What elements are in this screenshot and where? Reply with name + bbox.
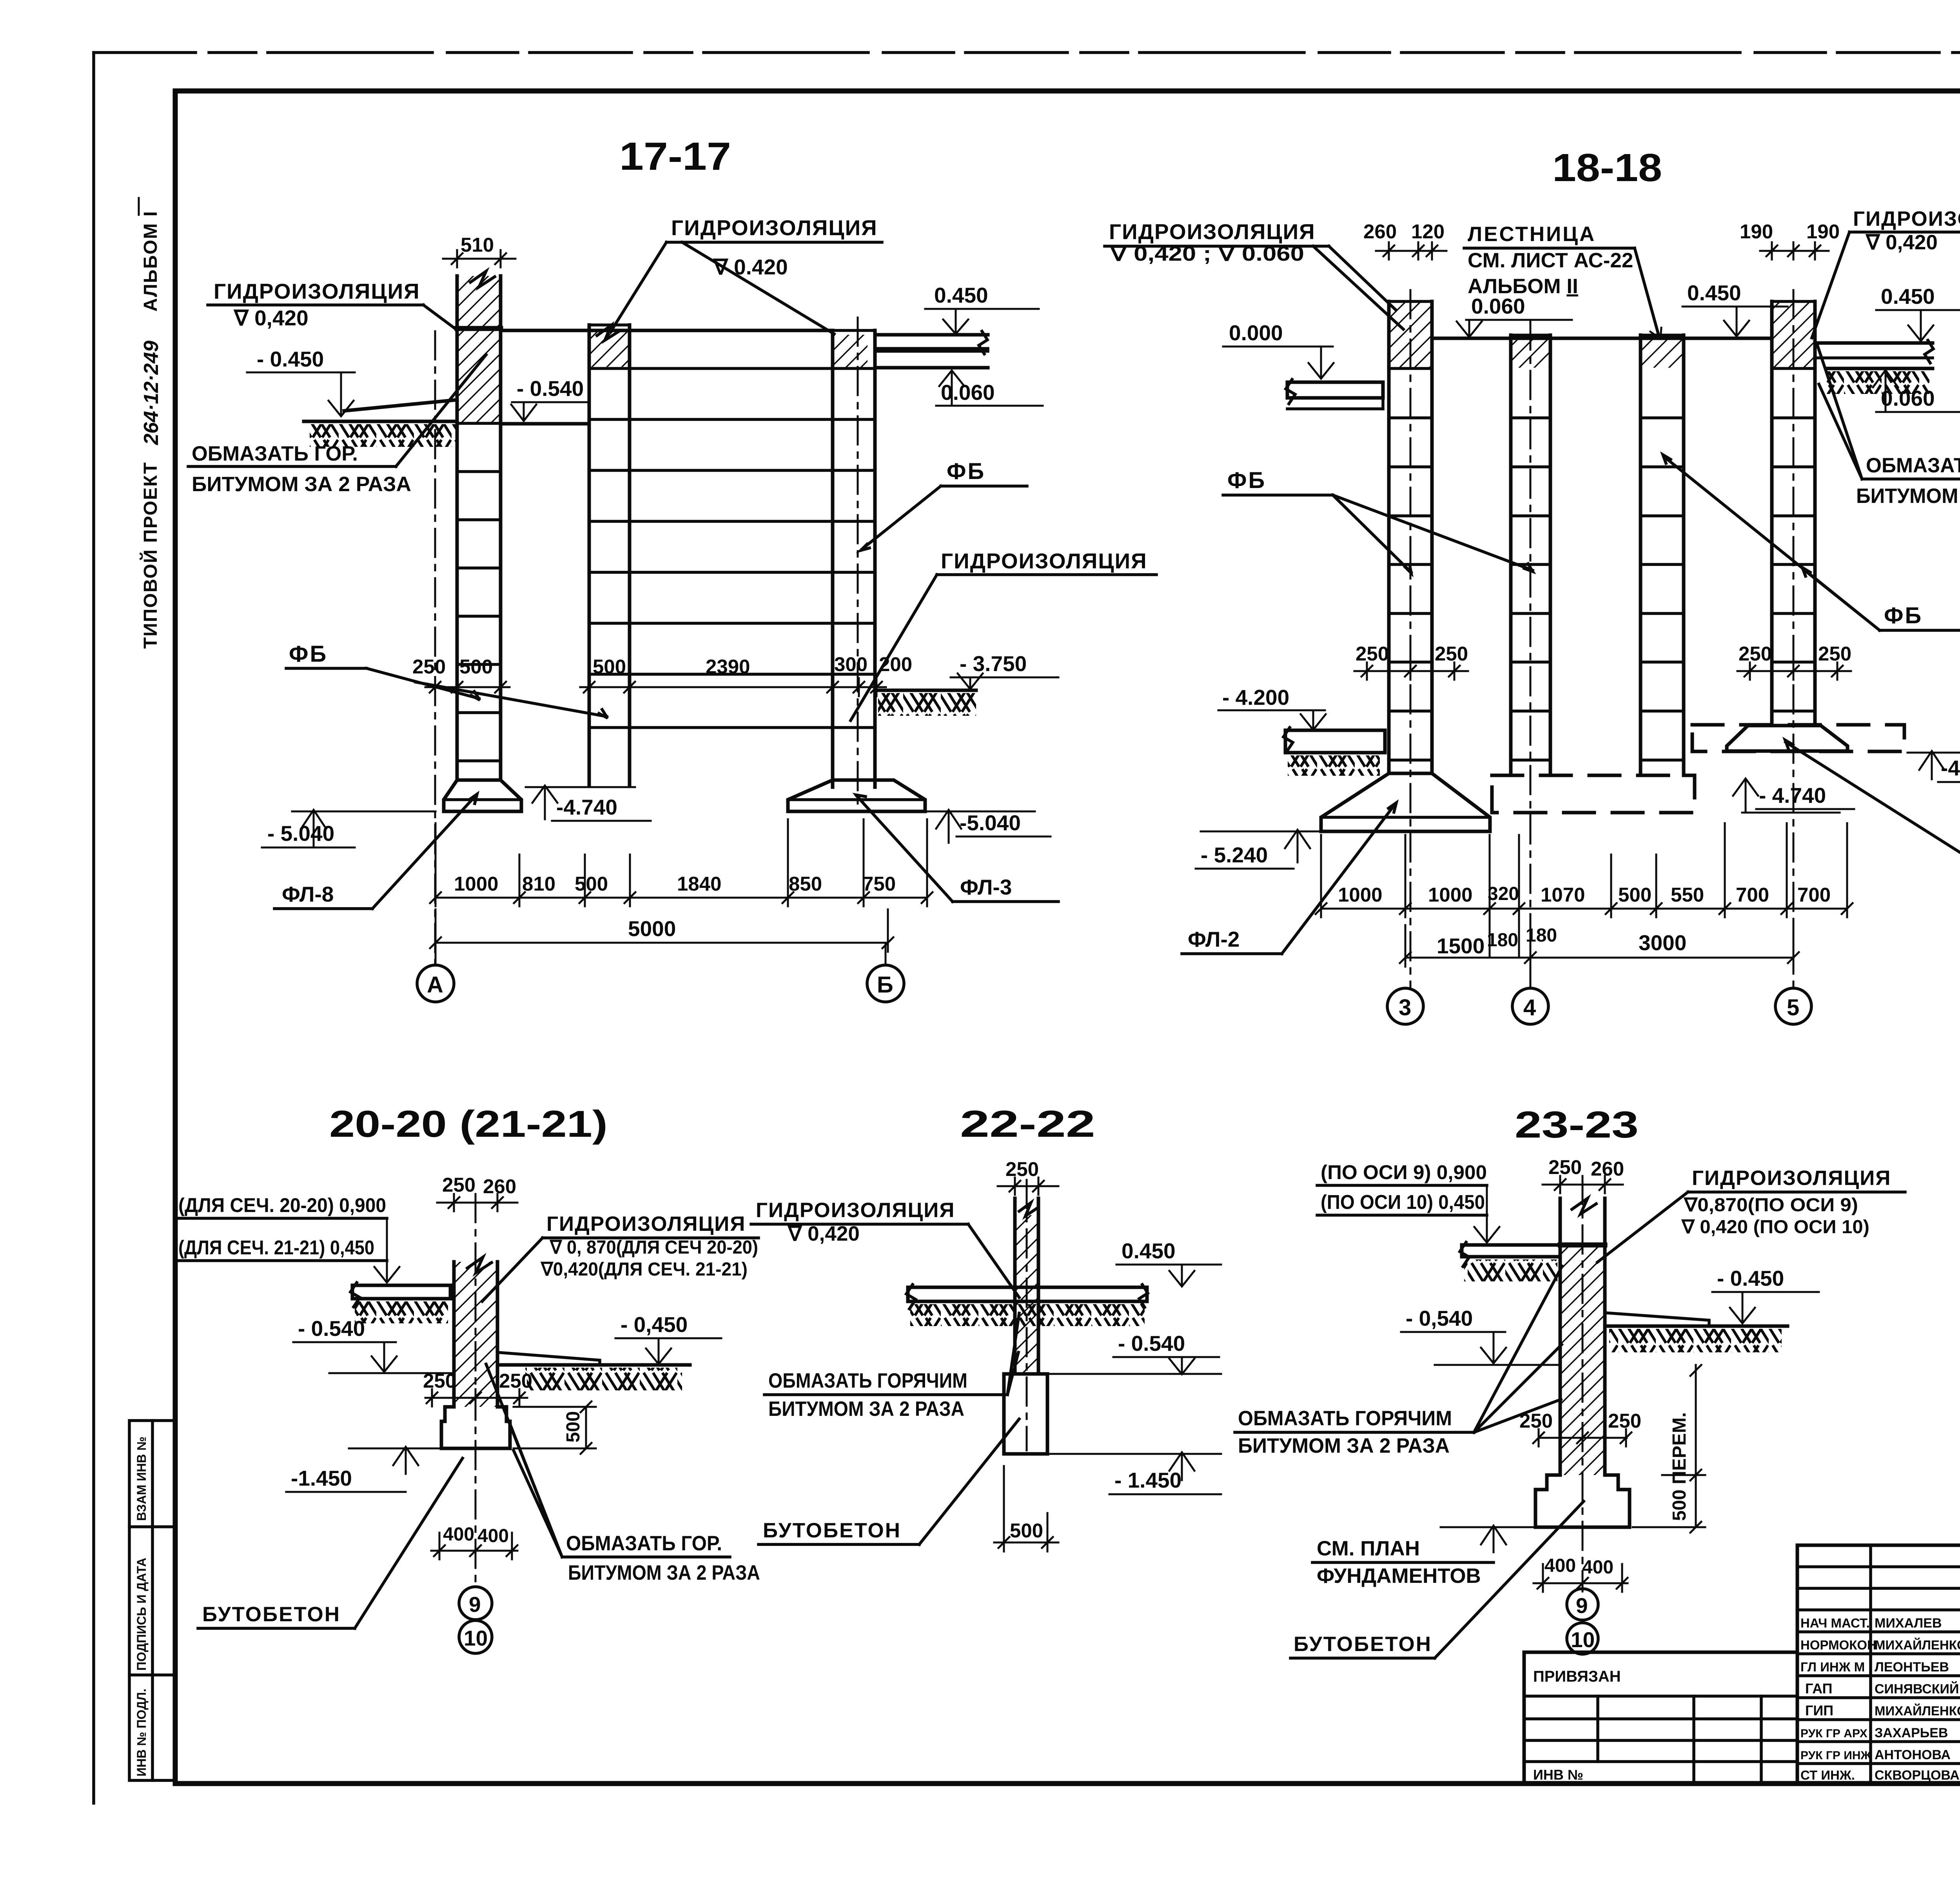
floor line 0.060 xyxy=(1432,337,1772,340)
axis circles 9/10 xyxy=(1567,1589,1598,1654)
svg-text:18-18: 18-18 xyxy=(1552,146,1662,190)
svg-text:250: 250 xyxy=(1005,1158,1039,1180)
level 0.450 xyxy=(1116,1239,1221,1287)
svg-text:ЗАХАРЬЕВ: ЗАХАРЬЕВ xyxy=(1875,1726,1948,1740)
level -5.040 right xyxy=(925,810,1051,843)
smear label xyxy=(486,1364,760,1584)
wall xyxy=(1015,1180,1038,1450)
SECTION 20-20 xyxy=(176,1103,760,1653)
FL-8 label xyxy=(274,794,477,909)
dim 250 top xyxy=(998,1158,1058,1195)
level 0.060 mid xyxy=(1457,294,1572,337)
svg-text:ИНВ №: ИНВ № xyxy=(1533,1767,1583,1783)
svg-text:- 5.240: - 5.240 xyxy=(1201,843,1268,867)
SECTION 22-22 xyxy=(751,1103,1221,1551)
svg-text:ГАП: ГАП xyxy=(1805,1680,1833,1697)
level -0.540 xyxy=(1401,1306,1560,1365)
privyazan stamp table xyxy=(1524,1652,1797,1783)
svg-text:120: 120 xyxy=(1411,220,1445,243)
svg-text:4: 4 xyxy=(1523,995,1536,1020)
level -4.440 xyxy=(1907,751,1960,782)
dim 500 perem xyxy=(1633,1365,1705,1533)
svg-text:ФЛ-2: ФЛ-2 xyxy=(1188,927,1240,951)
svg-text:ГИДРОИЗОЛЯЦИЯ: ГИДРОИЗОЛЯЦИЯ xyxy=(546,1212,746,1236)
svg-text:ФЛ-8: ФЛ-8 xyxy=(282,882,334,906)
floor slab right of axis5 xyxy=(1815,340,1933,394)
svg-text:ОБМАЗАТЬ ГОР.: ОБМАЗАТЬ ГОР. xyxy=(566,1532,722,1555)
dim 250/250 axis3 xyxy=(1354,642,1468,680)
svg-text:250: 250 xyxy=(1818,642,1851,665)
column axis 5 xyxy=(1772,290,1815,988)
svg-text:(ПО ОСИ 9) 0,900: (ПО ОСИ 9) 0,900 xyxy=(1321,1161,1487,1183)
svg-text:БУТОБЕТОН: БУТОБЕТОН xyxy=(202,1603,341,1626)
svg-text:-4 440: -4 440 xyxy=(1941,756,1960,780)
svg-text:ЛЕСТНИЦА: ЛЕСТНИЦА xyxy=(1468,223,1596,246)
bottom dimension row 2 xyxy=(1400,925,1799,967)
SECTION 23-23 xyxy=(1235,1104,1905,1658)
level 0.450 top right xyxy=(925,283,1039,334)
svg-text:ИНВ № ПОДЛ.: ИНВ № ПОДЛ. xyxy=(134,1689,149,1776)
dashed footing FL-5 xyxy=(1692,725,1904,751)
svg-text:ГИП: ГИП xyxy=(1805,1702,1833,1718)
column axis 4 xyxy=(1511,321,1550,988)
axis circle B xyxy=(867,943,904,1002)
svg-text:БУТОБЕТОН: БУТОБЕТОН xyxy=(763,1519,901,1542)
wall column on axis A xyxy=(457,271,501,780)
axis circle 3 xyxy=(1387,988,1423,1024)
svg-text:2390: 2390 xyxy=(706,655,750,678)
axis circle A xyxy=(417,952,454,1002)
svg-text:ФУНДАМЕНТОВ: ФУНДАМЕНТОВ xyxy=(1317,1564,1481,1588)
svg-text:9: 9 xyxy=(469,1592,481,1617)
svg-text:-1.450: -1.450 xyxy=(291,1466,352,1490)
bottom dimension row 1 xyxy=(1316,823,1853,956)
svg-text:- 3.750: - 3.750 xyxy=(960,651,1027,676)
small rows table xyxy=(1797,1565,1960,1568)
svg-text:ОБМАЗАТЬ ГОР.: ОБМАЗАТЬ ГОР. xyxy=(1866,454,1960,477)
svg-text:250: 250 xyxy=(1435,642,1468,665)
svg-text:БИТУМОМ ЗА 2 РАЗА: БИТУМОМ ЗА 2 РАЗА xyxy=(192,473,411,496)
level 0.060 right xyxy=(936,370,1043,406)
hydro label xyxy=(1597,1167,1905,1262)
axis circle 4 xyxy=(1512,988,1548,1024)
svg-text:Б: Б xyxy=(877,972,893,998)
svg-text:9: 9 xyxy=(1576,1593,1588,1618)
level labels for 20-20/21-21 xyxy=(176,1194,399,1283)
block course lines left column xyxy=(457,423,501,761)
svg-text:250: 250 xyxy=(499,1370,532,1392)
smear label xyxy=(1235,1266,1562,1457)
grid course lines xyxy=(589,368,875,728)
svg-text:СТ ИНЖ.: СТ ИНЖ. xyxy=(1800,1768,1855,1782)
svg-text:320: 320 xyxy=(1488,884,1519,904)
svg-text:1000: 1000 xyxy=(454,873,498,895)
axis A dash-dot line xyxy=(434,331,436,965)
left margin stamp boxes xyxy=(129,1421,175,1780)
svg-text:810: 810 xyxy=(522,873,555,895)
svg-text:АНТОНОВА: АНТОНОВА xyxy=(1875,1747,1951,1762)
svg-text:180: 180 xyxy=(1487,930,1518,951)
level -0.540 xyxy=(1038,1331,1221,1374)
hydro label top center xyxy=(611,216,882,334)
svg-text:ГИДРОИЗОЛЯЦИЯ: ГИДРОИЗОЛЯЦИЯ xyxy=(1692,1167,1891,1190)
floor slab top right xyxy=(875,331,988,368)
FB label left xyxy=(286,641,608,718)
hydro label xyxy=(482,1212,759,1301)
hydro label top left of 18-18 xyxy=(1105,220,1403,329)
footing xyxy=(1535,1475,1630,1527)
svg-text:ТИПОВОЙ ПРОЕКТ: ТИПОВОЙ ПРОЕКТ xyxy=(140,462,161,649)
svg-text:БИТУМОМ ЗА 2 РАЗА: БИТУМОМ ЗА 2 РАЗА xyxy=(568,1561,760,1584)
svg-text:МИХАЙЛЕНКО: МИХАЙЛЕНКО xyxy=(1875,1637,1960,1652)
svg-text:∇0,870(ПО ОСИ 9): ∇0,870(ПО ОСИ 9) xyxy=(1683,1195,1858,1216)
SECTION 17-17 xyxy=(188,134,1156,1002)
dim 250/250 axis5 xyxy=(1737,642,1851,680)
dim 510 over wall xyxy=(443,234,515,267)
svg-text:0.060: 0.060 xyxy=(1471,294,1525,318)
svg-text:(ПО ОСИ 10) 0,450: (ПО ОСИ 10) 0,450 xyxy=(1321,1191,1485,1213)
level 0.000 xyxy=(1223,321,1334,379)
svg-text:∇ 0,420 ; ∇ 0.060: ∇ 0,420 ; ∇ 0.060 xyxy=(1109,242,1304,265)
svg-text:(ДЛЯ СЕЧ. 21-21) 0,450: (ДЛЯ СЕЧ. 21-21) 0,450 xyxy=(178,1236,374,1259)
svg-text:ФЛ-3: ФЛ-3 xyxy=(960,875,1012,899)
level -0.540 xyxy=(293,1316,454,1373)
axis circles 9/10 xyxy=(459,1587,492,1653)
dim 260/120 xyxy=(1363,220,1446,259)
svg-text:700: 700 xyxy=(1736,884,1769,906)
level 0.450 right xyxy=(1876,284,1960,341)
column between 4 and 5 xyxy=(1641,335,1684,775)
butobeton label xyxy=(198,1458,463,1628)
level -4.740 middle xyxy=(526,786,651,821)
svg-text:МИХАЛЕВ: МИХАЛЕВ xyxy=(1875,1616,1942,1631)
svg-text:500: 500 xyxy=(1618,884,1651,906)
svg-text:17-17: 17-17 xyxy=(619,134,731,178)
FB label left xyxy=(1223,468,1533,573)
svg-text:250: 250 xyxy=(423,1370,456,1392)
svg-text:3: 3 xyxy=(1399,995,1411,1020)
level -0.540 mid xyxy=(511,376,588,421)
svg-text:- 0,540: - 0,540 xyxy=(1406,1306,1473,1330)
dim 250/260 top xyxy=(437,1174,517,1211)
smear label right xyxy=(1817,345,1960,508)
svg-text:0.060: 0.060 xyxy=(941,380,995,405)
svg-text:0.450: 0.450 xyxy=(1687,281,1741,305)
svg-text:-5.040: -5.040 xyxy=(960,811,1021,835)
svg-text:ФБ: ФБ xyxy=(947,459,985,484)
FL-2 label xyxy=(1182,803,1396,954)
hydro level line over grid xyxy=(501,329,833,332)
svg-text:250: 250 xyxy=(1356,642,1389,665)
svg-text:∇ 0,420: ∇ 0,420 xyxy=(1865,231,1938,254)
svg-text:- 0.540: - 0.540 xyxy=(517,376,584,401)
svg-text:500: 500 xyxy=(593,655,626,678)
footing FL-8 xyxy=(444,780,521,811)
floor slab left low xyxy=(1283,728,1385,776)
svg-text:- 0.450: - 0.450 xyxy=(1717,1266,1784,1290)
axis circle 5 xyxy=(1775,988,1811,1024)
FL-5 label xyxy=(1785,740,1960,871)
svg-text:400: 400 xyxy=(1582,1557,1613,1578)
level bottom see plan xyxy=(1312,1526,1535,1588)
svg-text:∇ 0,420: ∇ 0,420 xyxy=(787,1222,860,1245)
svg-text:ГИДРОИЗОЛЯЦИЯ: ГИДРОИЗОЛЯЦИЯ xyxy=(1109,220,1316,244)
stairs note xyxy=(1464,223,1661,339)
wall column xyxy=(454,1194,497,1584)
svg-text:- 0.540: - 0.540 xyxy=(1118,1331,1185,1355)
svg-text:ГИДРОИЗОЛЯЦИЯ: ГИДРОИЗОЛЯЦИЯ xyxy=(214,279,420,303)
svg-text:- 0.450: - 0.450 xyxy=(257,347,324,371)
svg-text:250: 250 xyxy=(1739,642,1772,665)
svg-text:МИХАЙЛЕНКО: МИХАЙЛЕНКО xyxy=(1875,1703,1960,1718)
svg-text:ГИДРОИЗОЛЯЦИЯ: ГИДРОИЗОЛЯЦИЯ xyxy=(1853,207,1960,230)
svg-text:23-23: 23-23 xyxy=(1515,1104,1639,1146)
svg-text:0.000: 0.000 xyxy=(1229,321,1283,345)
svg-text:СМ. ПЛАН: СМ. ПЛАН xyxy=(1317,1537,1420,1560)
svg-text:- 4.200: - 4.200 xyxy=(1222,685,1289,709)
svg-text:-4.740: -4.740 xyxy=(556,795,617,819)
level 0.060 right xyxy=(1873,370,1960,412)
floor slab left xyxy=(1460,1242,1560,1281)
level -5.240 xyxy=(1196,830,1319,869)
svg-text:260: 260 xyxy=(1591,1158,1624,1180)
FL-3 label xyxy=(856,795,1058,902)
svg-text:22-22: 22-22 xyxy=(960,1103,1095,1145)
svg-text:ПОДПИСЬ И ДАТА: ПОДПИСЬ И ДАТА xyxy=(134,1558,149,1671)
svg-text:ФБ: ФБ xyxy=(1884,603,1923,628)
svg-text:5000: 5000 xyxy=(628,916,676,941)
vertical project text xyxy=(139,198,163,649)
ground ledge right of grid xyxy=(875,690,976,716)
hydro label right xyxy=(851,549,1156,720)
svg-text:ГИДРОИЗОЛЯЦИЯ: ГИДРОИЗОЛЯЦИЯ xyxy=(941,549,1147,573)
svg-text:- 1.450: - 1.450 xyxy=(1114,1468,1181,1492)
level -0.450 xyxy=(1712,1266,1819,1323)
svg-text:1500: 1500 xyxy=(1437,934,1485,958)
floor slab left xyxy=(1286,379,1383,409)
FB label right xyxy=(861,459,1027,550)
svg-text:500: 500 xyxy=(575,873,608,895)
level -1.450 xyxy=(1047,1452,1221,1494)
svg-text:5: 5 xyxy=(1787,995,1799,1020)
svg-text:ПРИВЯЗАН: ПРИВЯЗАН xyxy=(1533,1668,1621,1685)
notes xyxy=(1960,1095,1960,1275)
hydro label xyxy=(751,1199,1019,1297)
level -4.740 right xyxy=(1733,778,1854,813)
svg-text:10: 10 xyxy=(464,1626,488,1650)
middle basement wall grid left column xyxy=(589,325,630,786)
SECTION 18-18 xyxy=(1105,146,1960,1024)
dim 250/260 top xyxy=(1543,1156,1624,1193)
svg-text:500: 500 xyxy=(563,1411,584,1443)
svg-text:500 ПЕРЕМ.: 500 ПЕРЕМ. xyxy=(1669,1412,1690,1521)
svg-text:300: 300 xyxy=(834,653,867,675)
svg-text:1000: 1000 xyxy=(1428,884,1472,906)
svg-text:510: 510 xyxy=(461,234,494,256)
svg-text:СИНЯВСКИЙ: СИНЯВСКИЙ xyxy=(1875,1681,1959,1697)
svg-text:ОБМАЗАТЬ ГОРЯЧИМ: ОБМАЗАТЬ ГОРЯЧИМ xyxy=(768,1369,967,1392)
svg-text:550: 550 xyxy=(1671,884,1704,906)
svg-text:260: 260 xyxy=(483,1175,516,1198)
svg-text:- 4.740: - 4.740 xyxy=(1759,783,1826,807)
ground right xyxy=(497,1352,690,1390)
level -4.200 xyxy=(1218,685,1326,730)
svg-text:РУК ГР ИНЖ: РУК ГР ИНЖ xyxy=(1800,1749,1872,1762)
svg-text:1070: 1070 xyxy=(1541,884,1585,906)
svg-text:ФБ: ФБ xyxy=(1227,468,1266,493)
svg-text:- 0.540: - 0.540 xyxy=(298,1316,365,1341)
level -3.750 right xyxy=(0,0,0,0)
svg-text:0.060: 0.060 xyxy=(1881,386,1935,410)
footing block xyxy=(1004,1374,1047,1454)
smear label left xyxy=(188,355,486,496)
footing FL-3 xyxy=(788,780,925,811)
svg-text:(ДЛЯ СЕЧ. 20-20) 0,900: (ДЛЯ СЕЧ. 20-20) 0,900 xyxy=(178,1194,386,1216)
svg-text:400: 400 xyxy=(1544,1555,1576,1576)
svg-text:250: 250 xyxy=(1548,1156,1582,1178)
svg-text:БИТУМОМ ЗА 2 РАЗА: БИТУМОМ ЗА 2 РАЗА xyxy=(1238,1434,1450,1457)
SECTION 22-22 xyxy=(0,0,0,0)
svg-text:250: 250 xyxy=(1519,1410,1553,1432)
svg-text:20-20 (21-21): 20-20 (21-21) xyxy=(329,1103,608,1145)
footing FL-2 xyxy=(1321,773,1490,831)
dim 190/190 xyxy=(1740,220,1840,259)
dim 500 footing xyxy=(514,1401,596,1454)
column axis 3 xyxy=(1389,290,1432,988)
SECTION 23-23 xyxy=(0,0,0,0)
svg-text:∇0,420(ДЛЯ СЕЧ. 21-21): ∇0,420(ДЛЯ СЕЧ. 21-21) xyxy=(540,1259,748,1280)
svg-text:ОБМАЗАТЬ ГОР.: ОБМАЗАТЬ ГОР. xyxy=(192,442,358,465)
dashed strip footing xyxy=(1492,775,1695,813)
level -0.450 left xyxy=(247,347,355,416)
svg-text:СКВОРЦОВА: СКВОРЦОВА xyxy=(1875,1768,1960,1783)
svg-text:0.450: 0.450 xyxy=(1881,284,1935,308)
butobeton label xyxy=(1290,1501,1584,1658)
level -5.040 left xyxy=(262,810,436,847)
dim 500 bottom xyxy=(994,1466,1058,1551)
svg-text:ВЗАМ ИНВ №: ВЗАМ ИНВ № xyxy=(134,1437,149,1521)
svg-text:700: 700 xyxy=(1797,884,1831,906)
smear label xyxy=(764,1313,1019,1421)
dim 250/250 xyxy=(423,1370,532,1406)
svg-text:3000: 3000 xyxy=(1639,931,1686,955)
course lines columns 3,4,mid xyxy=(1389,418,1815,760)
svg-text:0.450: 0.450 xyxy=(934,283,988,307)
level -1.450 xyxy=(286,1447,441,1492)
hydro label top right xyxy=(1812,207,1960,338)
svg-text:190: 190 xyxy=(1740,220,1773,243)
dim 400/400 xyxy=(431,1524,517,1559)
svg-text:850: 850 xyxy=(789,873,822,895)
svg-text:РУК ГР АРХ: РУК ГР АРХ xyxy=(1800,1727,1867,1740)
svg-text:АЛЬБОМ І: АЛЬБОМ І xyxy=(140,210,161,312)
svg-text:НАЧ МАСТ.: НАЧ МАСТ. xyxy=(1800,1616,1870,1630)
FB label right xyxy=(1663,455,1960,630)
wall xyxy=(1560,1176,1605,1591)
floor slab left xyxy=(350,1283,450,1323)
svg-text:0.450: 0.450 xyxy=(1122,1239,1176,1263)
footing xyxy=(441,1407,510,1448)
title block xyxy=(1797,1545,1960,1783)
svg-text:ФБ: ФБ xyxy=(289,641,328,667)
svg-text:∇ 0,420: ∇ 0,420 xyxy=(233,306,309,330)
bottom dimension row 2 (5000) xyxy=(430,909,893,952)
floor slab xyxy=(906,1285,1148,1326)
svg-text:250: 250 xyxy=(442,1174,475,1196)
outer trim border left xyxy=(92,53,95,1803)
ground right xyxy=(1605,1313,1788,1352)
svg-text:ОБМАЗАТЬ ГОРЯЧИМ: ОБМАЗАТЬ ГОРЯЧИМ xyxy=(1238,1407,1452,1430)
mid dimension row xyxy=(412,653,912,696)
svg-text:260: 260 xyxy=(1363,220,1397,243)
svg-text:СМ. ЛИСТ АС-22: СМ. ЛИСТ АС-22 xyxy=(1468,249,1633,272)
svg-text:400: 400 xyxy=(443,1524,474,1545)
bottom dimension row 1 xyxy=(430,819,933,906)
butobeton label xyxy=(759,1419,1019,1544)
svg-text:500: 500 xyxy=(459,655,493,678)
dim 400/400 xyxy=(1534,1555,1628,1592)
svg-text:250: 250 xyxy=(412,655,446,678)
svg-text:БУТОБЕТОН: БУТОБЕТОН xyxy=(1294,1633,1432,1656)
hydro label left xyxy=(208,279,457,330)
svg-text:- 0,450: - 0,450 xyxy=(621,1312,688,1337)
svg-text:ГИДРОИЗОЛЯЦИЯ: ГИДРОИЗОЛЯЦИЯ xyxy=(671,216,878,240)
middle grid right column xyxy=(833,318,875,804)
svg-text:ГИДРОИЗОЛЯЦИЯ: ГИДРОИЗОЛЯЦИЯ xyxy=(756,1199,955,1222)
level labels by axis xyxy=(1317,1161,1499,1243)
svg-text:190: 190 xyxy=(1806,220,1840,243)
svg-text:400: 400 xyxy=(477,1526,509,1546)
svg-text:ЛЕОНТЬЕВ: ЛЕОНТЬЕВ xyxy=(1875,1660,1949,1675)
level -0.450 right xyxy=(615,1312,721,1364)
level 0.450 mid xyxy=(1682,281,1788,336)
ground line left of wall xyxy=(304,400,457,447)
svg-text:500: 500 xyxy=(1010,1519,1043,1542)
svg-text:200: 200 xyxy=(879,653,912,675)
svg-text:10: 10 xyxy=(1571,1628,1595,1652)
svg-text:∇ 0, 870(ДЛЯ СЕЧ 20-20): ∇ 0, 870(ДЛЯ СЕЧ 20-20) xyxy=(549,1237,758,1258)
svg-text:НОРМОКОН: НОРМОКОН xyxy=(1800,1638,1877,1652)
dim 250/250 mid xyxy=(1519,1410,1641,1446)
svg-text:ГЛ ИНЖ М: ГЛ ИНЖ М xyxy=(1800,1660,1865,1674)
svg-text:250: 250 xyxy=(1608,1410,1641,1432)
svg-text:1840: 1840 xyxy=(677,873,721,895)
svg-text:∇ 0,420 (ПО ОСИ 10): ∇ 0,420 (ПО ОСИ 10) xyxy=(1681,1217,1869,1238)
outer trim border top (broken) xyxy=(94,51,1960,54)
svg-text:1000: 1000 xyxy=(1338,884,1382,906)
svg-text:- 5.040: - 5.040 xyxy=(267,821,334,846)
svg-text:БИТУМОМ ЗА 2 РАЗА: БИТУМОМ ЗА 2 РАЗА xyxy=(768,1397,964,1421)
basement floor line xyxy=(501,422,589,426)
svg-text:264·12·249: 264·12·249 xyxy=(140,341,163,445)
svg-text:БИТУМОМ ЗА 2 РАЗА: БИТУМОМ ЗА 2 РАЗА xyxy=(1856,484,1960,508)
svg-text:А: А xyxy=(427,972,443,998)
svg-text:750: 750 xyxy=(862,873,896,895)
